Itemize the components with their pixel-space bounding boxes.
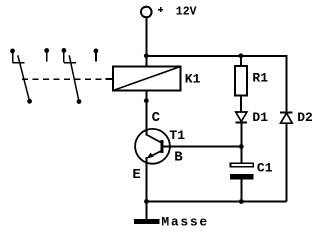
- wire: supply drop to top bus: [145, 17, 147, 56]
- node: junction dot C1/ground: [239, 199, 244, 204]
- terminal stub 2: [44, 48, 49, 61]
- svg-text:D1: D1: [252, 110, 268, 125]
- svg-text:D2: D2: [297, 110, 313, 125]
- switch contact 2 (relay contact pole B): [62, 48, 82, 104]
- svg-text:C1: C1: [257, 161, 273, 176]
- node: junction dot emitter/ground: [144, 199, 149, 204]
- node: junction dot at relay top / supply: [144, 53, 149, 58]
- supply terminal +12V: [141, 6, 197, 19]
- relay K1 coil: [106, 67, 201, 91]
- wire: top bus +12V rail: [146, 55, 286, 57]
- capacitor C1: [230, 161, 273, 202]
- wire: relay bottom pin to collector: [145, 91, 147, 136]
- wire: dashed mechanical link to switch levers: [22, 78, 106, 80]
- terminal stub 4: [94, 49, 99, 62]
- wire: relay top pin: [145, 56, 147, 67]
- ground Masse: [134, 202, 209, 230]
- node: junction dot at R1 top: [239, 53, 244, 58]
- svg-text:K1: K1: [185, 72, 201, 87]
- svg-text:E: E: [132, 167, 140, 183]
- wire: base wire to right branch: [163, 146, 241, 148]
- transistor T1: [132, 110, 185, 201]
- switch contact 1 (relay contact pole A): [10, 49, 32, 104]
- wire: D2 anode down to ground bus: [286, 123, 288, 201]
- svg-text:T1: T1: [169, 128, 185, 143]
- node: junction dot base/D1/C1: [239, 144, 244, 149]
- svg-text:C: C: [152, 110, 161, 126]
- resistor R1: [235, 56, 268, 112]
- node: junction dot below relay: [144, 98, 149, 103]
- diode D2: [280, 110, 313, 125]
- svg-text:B: B: [174, 150, 183, 166]
- svg-text:12V: 12V: [176, 6, 197, 19]
- wire: ground bus: [147, 201, 287, 203]
- svg-text:Masse: Masse: [161, 215, 209, 230]
- wire: right branch down to D2 cathode: [286, 55, 288, 113]
- diode D1: [236, 110, 269, 147]
- wire: junction down to C1: [240, 147, 242, 163]
- svg-text:R1: R1: [252, 71, 268, 86]
